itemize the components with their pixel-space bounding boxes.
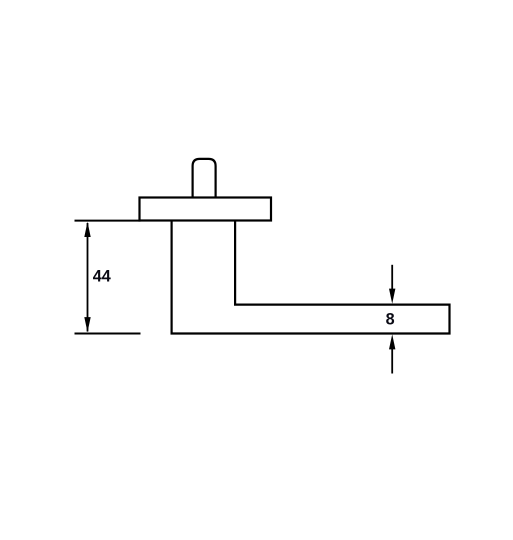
dimension line 44 (vertical, double-ended) — [87, 223, 89, 332]
extension line top (left of plate, level with plate bottom) — [75, 220, 141, 222]
extension line bottom (level with lever underside) — [75, 333, 141, 335]
arrowhead up (44 top) — [84, 222, 90, 237]
arrowhead down (44 bottom) — [84, 317, 90, 332]
rose plate (wide rectangle) — [140, 198, 272, 221]
arrowhead up (8 lower) — [389, 334, 395, 349]
lever handle outline (neck + horizontal grip, L shape) — [172, 221, 450, 334]
svg-text:44: 44 — [93, 268, 111, 286]
svg-text:8: 8 — [386, 311, 395, 329]
arrowhead down (8 upper) — [389, 289, 395, 304]
dimension arrow 8 upper (pointing down at lever top) — [391, 265, 393, 292]
dimension arrow 8 lower (pointing up at lever underside) — [391, 346, 393, 374]
spindle (rounded-top stem on rose plate) — [193, 159, 216, 198]
